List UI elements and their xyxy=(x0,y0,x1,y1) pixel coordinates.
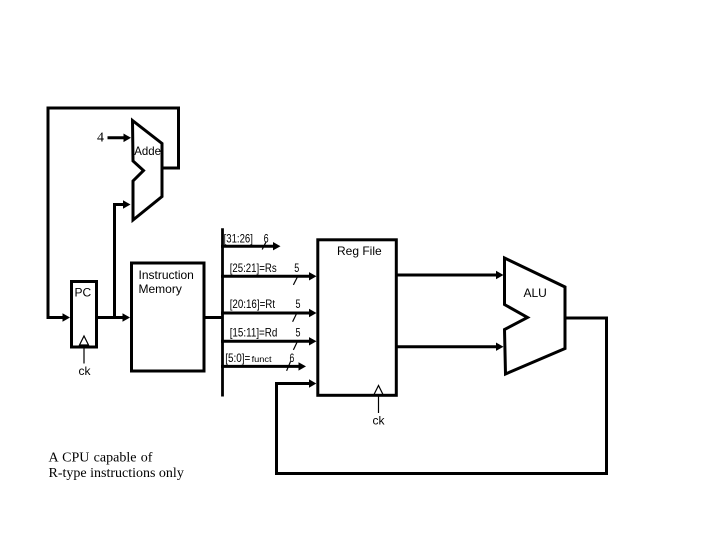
wire: field [5:0]=funct xyxy=(221,362,306,370)
svg-text:6: 6 xyxy=(264,232,269,246)
svg-text:6: 6 xyxy=(290,351,295,365)
clock triangle (PC) xyxy=(80,336,89,345)
label [25:21]=Rs 5 xyxy=(230,261,300,275)
bus width slash (6) xyxy=(262,242,266,249)
svg-text:4: 4 xyxy=(97,131,104,146)
svg-text:[15:11]=Rd: [15:11]=Rd xyxy=(230,326,278,340)
wire: reg file read data 1 to ALU xyxy=(398,271,504,279)
svg-text:A CPU capable of: A CPU capable of xyxy=(49,451,153,466)
svg-text:[25:21]=Rs: [25:21]=Rs xyxy=(230,261,277,275)
bus width slash (5) xyxy=(293,314,297,322)
label [5:0]=funct 6 xyxy=(225,351,294,365)
svg-text:funct: funct xyxy=(252,354,273,364)
svg-text:ALU: ALU xyxy=(524,286,547,300)
wire: ALU result write-back to reg file xyxy=(277,318,607,474)
wire: branch from PC output up to adder bottom input xyxy=(115,200,131,316)
svg-text:Reg File: Reg File xyxy=(337,244,382,258)
clock triangle (reg file) xyxy=(374,386,384,396)
svg-text:ck: ck xyxy=(79,364,92,378)
wire: reg file read data 2 to ALU xyxy=(398,343,504,351)
bus width slash (5) xyxy=(293,342,297,350)
bus width slash (5) xyxy=(293,277,297,285)
wire: loop from adder output around to PC input xyxy=(48,108,179,322)
wire: opcode field [31:26] xyxy=(221,242,281,250)
wire: reg file clock stub xyxy=(378,397,380,414)
wire: constant 4 into adder xyxy=(108,134,132,143)
reg file xyxy=(318,240,397,395)
wire: field [20:16]=Rt to reg file xyxy=(221,309,317,317)
svg-text:R-type instructions only: R-type instructions only xyxy=(49,466,184,481)
svg-text:PC: PC xyxy=(75,286,92,300)
wire: PC output to instruction memory xyxy=(97,313,130,322)
label [20:16]=Rt 5 xyxy=(230,297,301,311)
svg-text:[31:26]: [31:26] xyxy=(224,232,253,246)
bus width slash (6) xyxy=(287,361,291,371)
instruction memory xyxy=(132,263,205,371)
wire: field [25:21]=Rs to reg file xyxy=(221,272,317,280)
svg-text:[20:16]=Rt: [20:16]=Rt xyxy=(230,297,276,311)
label [15:11]=Rd 5 xyxy=(230,326,301,340)
wire: instruction memory output to field bus xyxy=(204,316,223,319)
PC register xyxy=(72,282,97,348)
instruction field bus xyxy=(221,228,224,396)
svg-text:5: 5 xyxy=(296,297,301,311)
svg-text:ck: ck xyxy=(373,414,386,428)
svg-text:Adde: Adde xyxy=(134,144,161,158)
wire: PC clock stub xyxy=(83,346,85,364)
ALU xyxy=(505,258,566,374)
label [31:26] 6 xyxy=(224,232,269,246)
caption: A CPU capable of R-type instructions only xyxy=(49,451,184,482)
svg-text:[5:0]=: [5:0]= xyxy=(225,351,250,365)
adder xyxy=(133,121,163,221)
svg-text:5: 5 xyxy=(296,326,301,340)
wire: field [15:11]=Rd to reg file xyxy=(221,337,317,345)
svg-text:5: 5 xyxy=(294,261,299,275)
